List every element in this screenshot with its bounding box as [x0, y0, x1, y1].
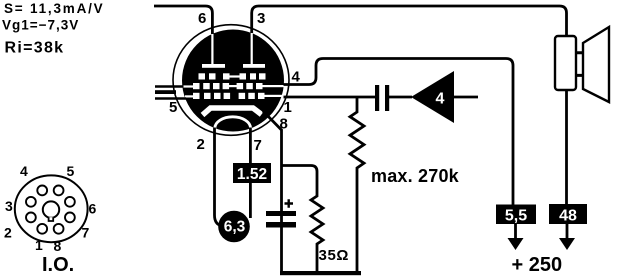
svg-text:5: 5 — [169, 99, 177, 116]
svg-text:7: 7 — [254, 137, 262, 154]
svg-text:6: 6 — [198, 10, 206, 27]
svg-text:4: 4 — [292, 69, 301, 86]
svg-text:8: 8 — [280, 116, 288, 133]
svg-text:I.O.: I.O. — [42, 254, 74, 276]
svg-text:S= 11,3mA/V: S= 11,3mA/V — [4, 1, 104, 16]
svg-text:1: 1 — [35, 237, 43, 253]
svg-text:Vg1=−7,3V: Vg1=−7,3V — [2, 18, 79, 33]
svg-text:48: 48 — [559, 208, 577, 225]
svg-text:3: 3 — [5, 198, 13, 214]
svg-text:6,3: 6,3 — [224, 219, 246, 236]
svg-text:+ 250: + 250 — [512, 254, 563, 276]
svg-text:6: 6 — [89, 201, 97, 217]
svg-text:Ri=38k: Ri=38k — [5, 39, 65, 56]
svg-text:3: 3 — [257, 10, 265, 27]
svg-text:35Ω: 35Ω — [319, 247, 350, 264]
svg-text:1: 1 — [284, 99, 292, 116]
svg-text:2: 2 — [4, 225, 12, 241]
svg-text:4: 4 — [436, 91, 445, 108]
svg-text:2: 2 — [197, 136, 205, 153]
svg-text:max. 270k: max. 270k — [371, 166, 460, 186]
svg-text:7: 7 — [82, 225, 90, 241]
svg-text:4: 4 — [20, 163, 28, 179]
svg-text:8: 8 — [54, 238, 62, 254]
svg-text:5: 5 — [67, 163, 75, 179]
svg-text:1.52: 1.52 — [237, 166, 267, 183]
svg-text:5,5: 5,5 — [505, 208, 527, 225]
